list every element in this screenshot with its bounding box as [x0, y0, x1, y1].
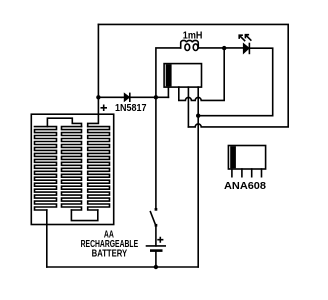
wire: D1 cathode to node B: [122, 96, 169, 98]
solar panel PV1 frame: [31, 114, 113, 224]
inductor L1 loop turn 2: [193, 44, 198, 51]
wire: bottom ground rail: [47, 266, 198, 268]
LED D2 emission arrow 1: [239, 35, 244, 40]
wire: battery BT1 negative to ground rail: [155, 252, 157, 267]
diode D1 1N5817 anode triangle: [124, 93, 129, 101]
node A: junction solar panel + / D1 anode: [96, 95, 100, 99]
switch S1 bottom contact: [155, 224, 158, 227]
wire: outer loop top rail and right side down to D2 return: [98, 24, 288, 127]
svg-text:ANA608: ANA608: [224, 181, 266, 192]
inductor L1 coil humps: [181, 40, 199, 47]
IC U2 pin 2: [241, 169, 243, 177]
wire: L1 right to LED anode node: [198, 47, 243, 49]
wire: U1 tab pin riser from D1 cathode wire: [167, 87, 169, 97]
wire: solar panel negative lead down to ground rail: [46, 210, 48, 267]
battery BT1 - plate: [151, 249, 161, 252]
battery BT1 + polarity sign: [158, 238, 163, 242]
IC U2 ANA608 package body: [228, 146, 265, 170]
svg-text:1N5817: 1N5817: [115, 103, 147, 114]
battery BT1 + plate: [147, 245, 166, 247]
switch S1 blade: [150, 212, 155, 225]
LED D2 emission arrow 2: [245, 35, 250, 40]
solar panel PV1 cell column 1: [35, 127, 57, 210]
node E: junction battery negative on ground rail: [154, 265, 158, 269]
wire: D1 anode wire: [98, 96, 121, 98]
inductor L1 loop turn 1: [185, 44, 190, 51]
IC U2 pin 3: [251, 169, 253, 177]
wire: node D to LED cathode drop: [198, 115, 273, 117]
solar panel PV1 cell column 2: [62, 127, 82, 210]
IC U2 pin 1: [231, 169, 233, 177]
IC U1 tab bar: [166, 64, 172, 86]
svg-text:BATTERY: BATTERY: [92, 249, 128, 260]
+ polarity label at D1 anode: [101, 105, 106, 110]
IC U2 pin 4: [261, 169, 263, 177]
switch S1 top contact: [155, 208, 158, 211]
IC U2 ANA608 tab bar: [230, 146, 236, 168]
wire: switch S1 to battery BT1: [155, 227, 157, 246]
wire: U1 pin 1 lead down to crossover run to node C: [179, 48, 224, 100]
LED D2 anode triangle: [243, 44, 249, 54]
wire: LED cathode right and down: [249, 48, 272, 116]
IC U1 body: [164, 64, 201, 88]
wire: battery branch from node B up to L1 left / down to switch: [156, 48, 181, 209]
wire: U1 pin 2 lead down to outer loop return: [187, 87, 189, 127]
node C: junction L1 / LED anode / U1 pin1 feed: [222, 46, 226, 50]
solar panel PV1 top bus column1 to column2: [47, 118, 81, 126]
wire: left rail from top rail down into solar panel top bus: [88, 24, 99, 126]
svg-text:1mH: 1mH: [183, 31, 203, 42]
diode D1 cathode bar: [129, 93, 131, 101]
solar panel PV1 bottom bus column2 to column3: [71, 210, 97, 221]
node B: junction D1 cathode / L1 / battery branch: [154, 95, 158, 99]
solar panel PV1 cell column 3: [88, 127, 110, 210]
node D: junction U1 pin3 / LED cathode return: [196, 114, 200, 118]
wire: U1 pin 3 lead down to ground rail: [197, 87, 199, 267]
LED D2 cathode bar: [248, 44, 250, 54]
